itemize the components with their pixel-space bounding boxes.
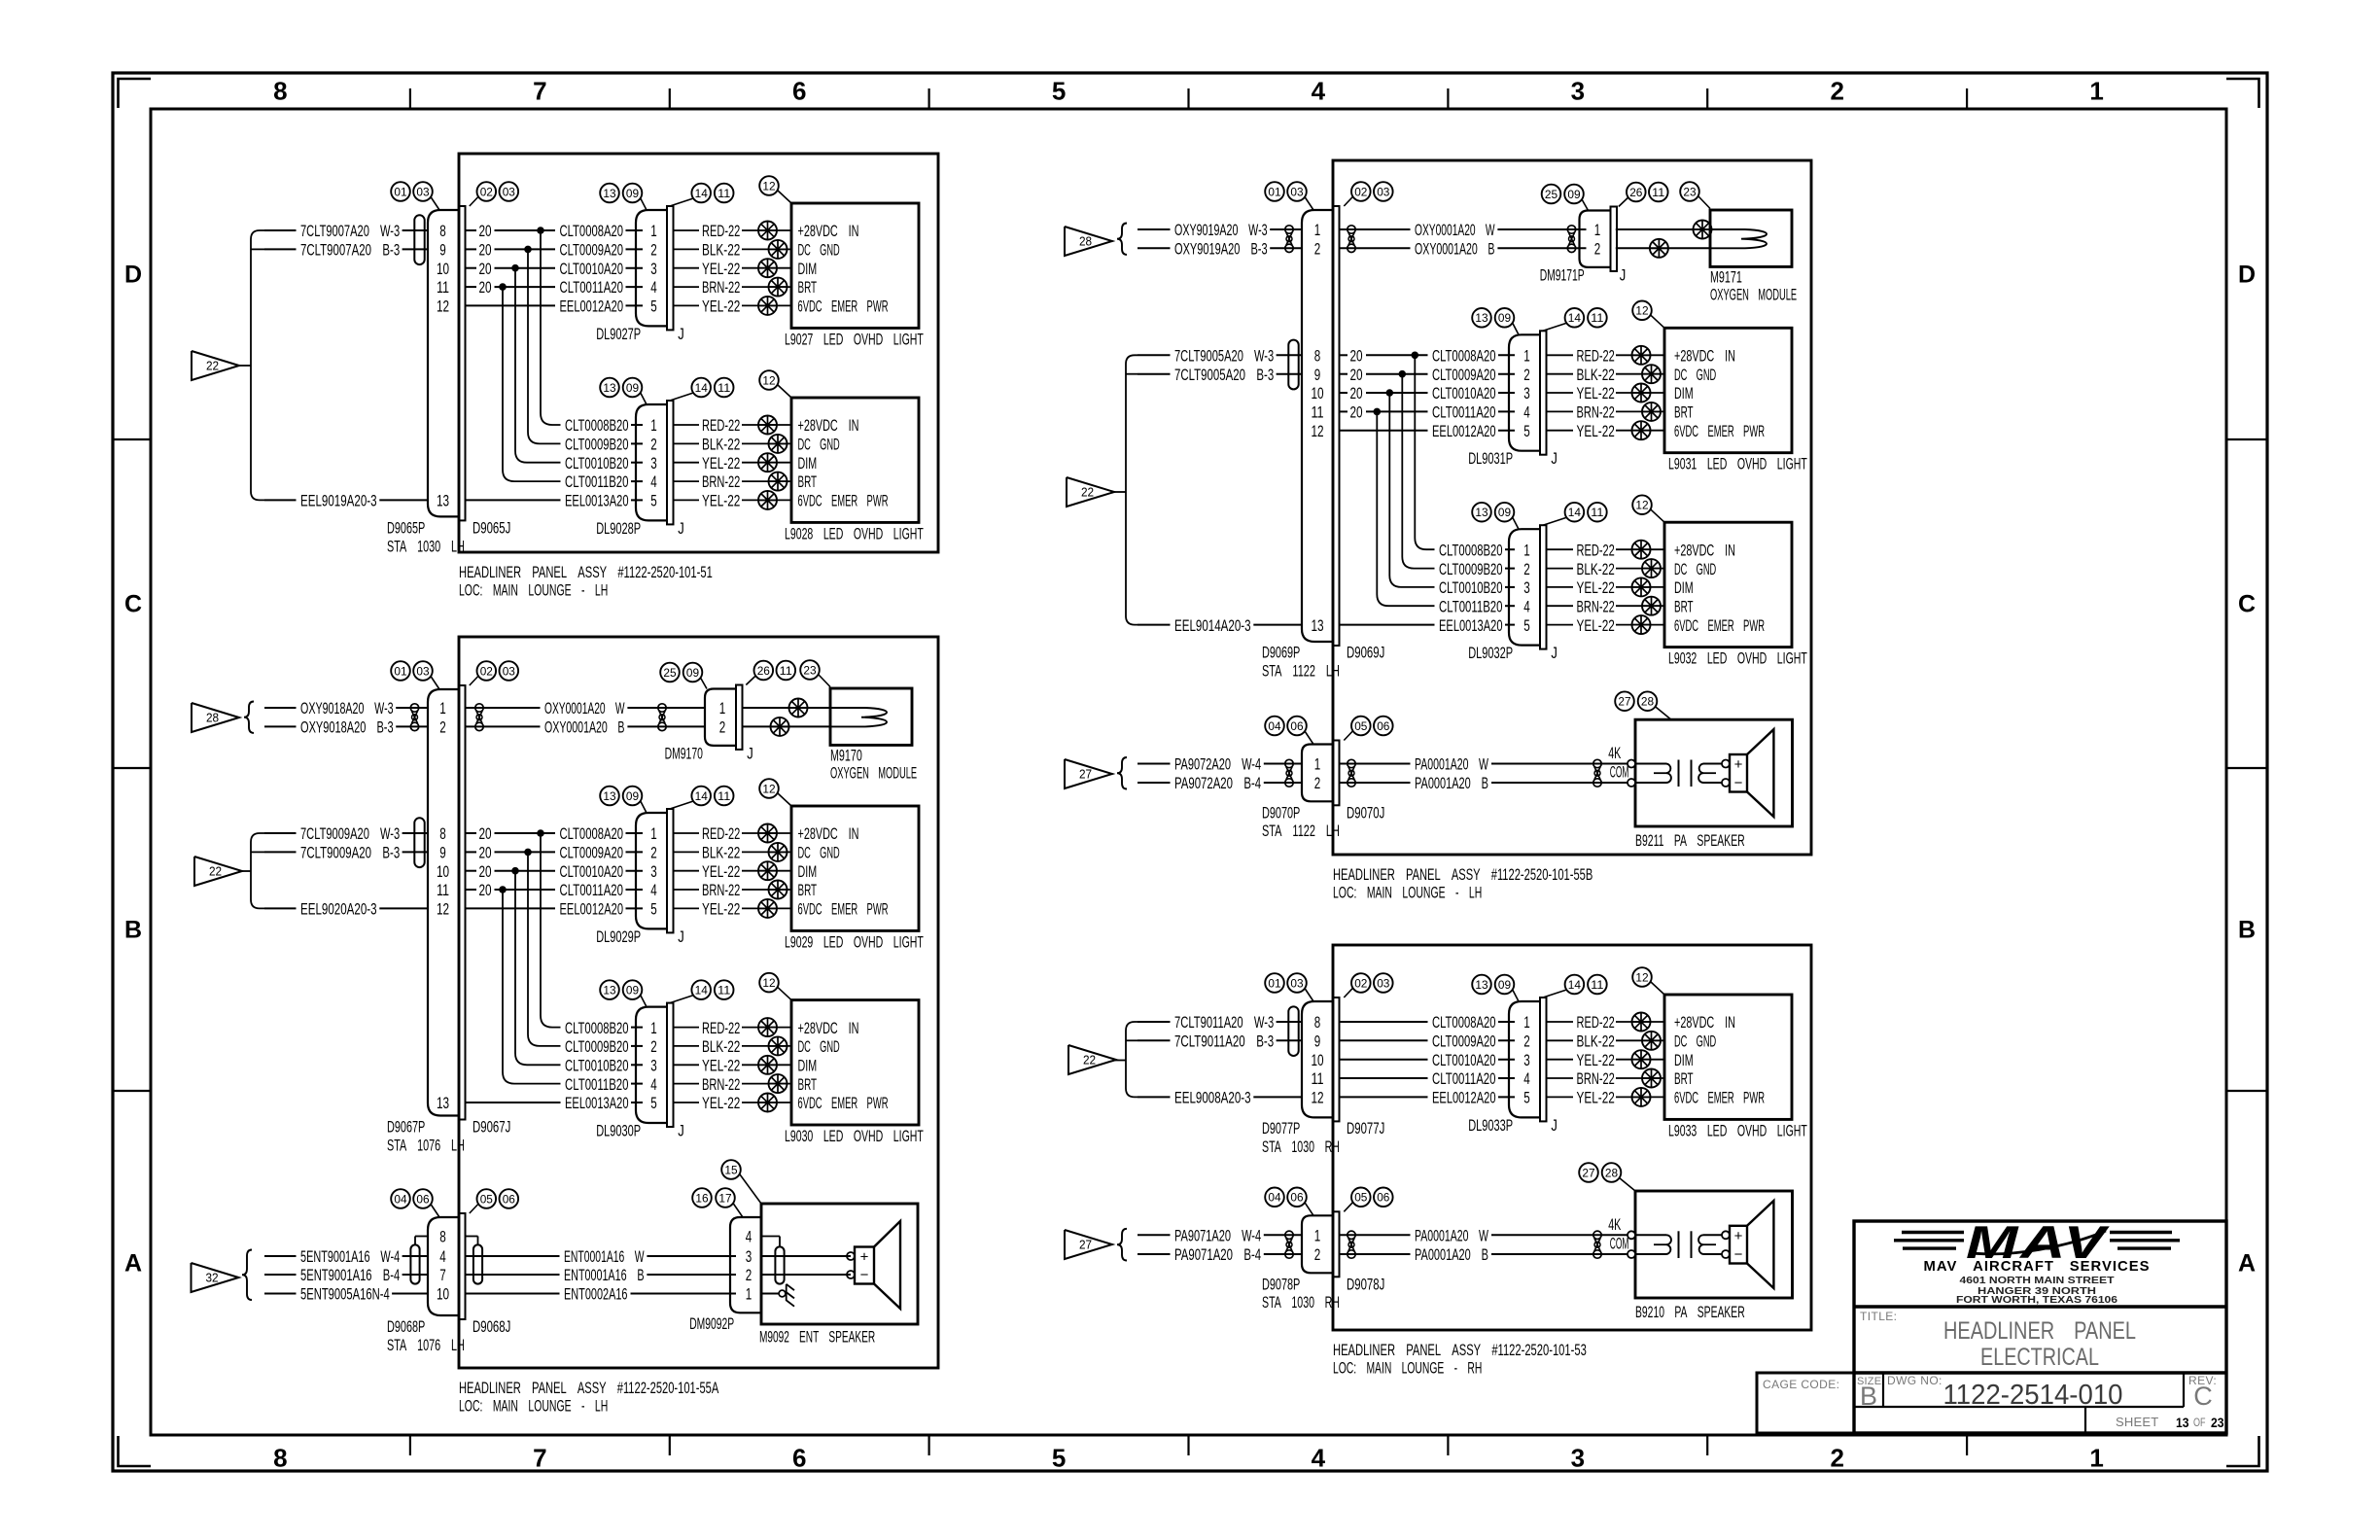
wire ENT0001A16 W <box>466 1247 736 1266</box>
svg-text:2: 2 <box>1314 1245 1321 1264</box>
svg-text:DIM: DIM <box>1674 578 1694 597</box>
svg-text:EEL0013A20: EEL0013A20 <box>1439 616 1503 635</box>
svg-text:DC GND: DC GND <box>1674 1032 1716 1051</box>
shield capsule <box>1288 340 1298 390</box>
svg-text:20: 20 <box>479 844 492 862</box>
svg-text:CLT0011B20: CLT0011B20 <box>565 1075 629 1094</box>
svg-text:CLT0009B20: CLT0009B20 <box>1439 560 1503 578</box>
title block <box>1757 1221 2226 1433</box>
wire ENT0001A16 B <box>466 1266 736 1284</box>
wire vertical drop <box>1377 411 1434 606</box>
svg-text:HEADLINER PANEL ASSY #1122-252: HEADLINER PANEL ASSY #1122-2520-101-51 <box>459 563 713 581</box>
bracket <box>251 230 264 500</box>
svg-text:2: 2 <box>650 241 657 260</box>
wire OXY0001A20 B <box>466 718 705 737</box>
wire EEL0013A20 <box>565 492 643 510</box>
svg-text:09: 09 <box>1567 188 1581 201</box>
svg-text:A: A <box>124 1250 142 1277</box>
wire segment pin1 inner <box>466 844 555 862</box>
svg-text:5ENT9001A16 B-4: 5ENT9001A16 B-4 <box>300 1266 400 1284</box>
wire CLT0010B20 <box>565 454 643 472</box>
wire segment inner <box>1340 1039 1427 1041</box>
svg-text:L9031 LED OVHD LIGHT: L9031 LED OVHD LIGHT <box>1668 455 1807 473</box>
MAV logo <box>1894 1216 2180 1268</box>
wire segment pin1 inner <box>466 241 555 260</box>
svg-text:OXY9018A20 W-3: OXY9018A20 W-3 <box>300 699 394 717</box>
connector DM9170 <box>665 685 753 763</box>
connector DM9171P <box>1540 207 1627 285</box>
svg-text:27: 27 <box>1582 1166 1595 1179</box>
svg-text:CLT0009A20: CLT0009A20 <box>560 241 624 260</box>
connector D9078P <box>1262 1211 1384 1312</box>
reference circles 25 09 26 11 23 <box>660 660 830 688</box>
svg-text:ENT0001A16 W: ENT0001A16 W <box>564 1247 645 1266</box>
svg-text:YEL-22: YEL-22 <box>702 1094 740 1112</box>
svg-text:28: 28 <box>1605 1166 1619 1179</box>
svg-text:8: 8 <box>439 1228 446 1246</box>
svg-text:20: 20 <box>479 241 492 260</box>
svg-text:CLT0009A20: CLT0009A20 <box>560 844 624 862</box>
wire EEL9019A20-3 <box>264 492 428 510</box>
svg-text:BRT: BRT <box>1674 1069 1694 1088</box>
svg-text:10: 10 <box>1311 1051 1323 1069</box>
wire segment inner <box>1340 1077 1427 1079</box>
svg-text:YEL-22: YEL-22 <box>1577 578 1615 597</box>
shield capsule <box>414 818 424 867</box>
svg-text:CLT0009A20: CLT0009A20 <box>1432 1032 1496 1051</box>
svg-text:25: 25 <box>663 666 677 680</box>
svg-text:OXY9019A20 B-3: OXY9019A20 B-3 <box>1174 240 1268 259</box>
svg-text:CAGE CODE:: CAGE CODE: <box>1763 1378 1839 1391</box>
svg-text:8: 8 <box>273 1444 287 1473</box>
svg-text:D9067J: D9067J <box>472 1118 510 1137</box>
svg-text:12: 12 <box>437 297 449 316</box>
svg-text:2: 2 <box>1830 1444 1843 1473</box>
svg-text:4: 4 <box>1523 403 1530 422</box>
svg-text:2: 2 <box>1594 240 1601 259</box>
svg-text:DM9170: DM9170 <box>665 744 703 762</box>
svg-text:4K: 4K <box>1608 1215 1622 1234</box>
PA speaker B9211 <box>1627 719 1793 850</box>
wire CLT0011A20 <box>1432 403 1515 422</box>
wire CLT0010A20 <box>560 862 644 881</box>
svg-text:14: 14 <box>695 789 709 803</box>
svg-text:YEL-22: YEL-22 <box>702 454 740 472</box>
svg-text:7CLT9005A20 B-3: 7CLT9005A20 B-3 <box>1174 366 1274 384</box>
svg-text:J: J <box>1551 644 1557 662</box>
wire segment pin0 inner <box>1340 347 1427 366</box>
svg-text:EEL9019A20-3: EEL9019A20-3 <box>300 492 377 510</box>
svg-text:LOC: MAIN LOUNGE - LH: LOC: MAIN LOUNGE - LH <box>459 581 608 600</box>
svg-text:10: 10 <box>1311 384 1323 402</box>
svg-text:CLT0009B20: CLT0009B20 <box>565 436 629 454</box>
svg-text:4: 4 <box>1523 1069 1530 1088</box>
bracket <box>1126 355 1137 624</box>
connector DL9032P <box>1468 525 1557 662</box>
svg-text:BRN-22: BRN-22 <box>702 881 740 899</box>
wire vertical drop <box>1389 393 1434 587</box>
connector D9067P <box>387 685 510 1155</box>
wire EEL0013A20 from pin 13 <box>466 499 561 501</box>
svg-text:23: 23 <box>2211 1415 2224 1430</box>
svg-text:06: 06 <box>1377 719 1390 733</box>
svg-text:09: 09 <box>626 983 640 997</box>
svg-text:HEADLINER PANEL ASSY #1122-252: HEADLINER PANEL ASSY #1122-2520-101-55B <box>1333 865 1592 884</box>
svg-text:OXY0001A20 W: OXY0001A20 W <box>544 699 625 717</box>
svg-text:M9092 ENT SPEAKER: M9092 ENT SPEAKER <box>759 1328 875 1347</box>
svg-text:DC GND: DC GND <box>1674 560 1716 578</box>
svg-text:1: 1 <box>650 1019 657 1037</box>
svg-text:4: 4 <box>650 278 657 297</box>
wire CLT0008B20 <box>565 1019 643 1037</box>
svg-text:3: 3 <box>1523 1051 1530 1069</box>
wire CLT0009A20 <box>560 241 644 260</box>
wire PA9072A20 W-4 <box>1137 755 1302 774</box>
svg-text:09: 09 <box>626 187 640 200</box>
svg-text:5: 5 <box>650 492 657 510</box>
flag 22 <box>194 857 242 886</box>
svg-text:20: 20 <box>479 222 492 240</box>
wire PA9072A20 B-4 <box>1137 774 1302 792</box>
svg-text:12: 12 <box>1311 422 1323 440</box>
svg-text:6: 6 <box>792 1444 806 1473</box>
svg-text:11: 11 <box>780 664 793 678</box>
svg-text:DL9028P: DL9028P <box>596 519 641 538</box>
svg-text:OXYGEN MODULE: OXYGEN MODULE <box>1710 285 1797 303</box>
svg-text:22: 22 <box>1083 1053 1096 1067</box>
svg-text:6VDC EMER PWR: 6VDC EMER PWR <box>798 297 889 316</box>
svg-text:BLK-22: BLK-22 <box>702 844 740 862</box>
wire segment inner <box>1340 1021 1427 1023</box>
svg-text:5: 5 <box>1052 77 1066 106</box>
svg-text:EEL0013A20: EEL0013A20 <box>565 1094 629 1112</box>
svg-text:4: 4 <box>746 1228 752 1246</box>
panel label <box>459 1379 719 1416</box>
flag 27 <box>1065 1230 1112 1259</box>
svg-text:BRN-22: BRN-22 <box>702 1075 740 1094</box>
svg-text:4: 4 <box>1312 1444 1326 1473</box>
svg-text:B: B <box>1860 1382 1877 1411</box>
svg-text:3: 3 <box>650 260 657 278</box>
svg-text:YEL-22: YEL-22 <box>702 862 740 881</box>
wire CLT0009A20 <box>1432 366 1515 384</box>
svg-text:BLK-22: BLK-22 <box>1577 1032 1615 1051</box>
svg-text:BRT: BRT <box>798 881 818 899</box>
svg-text:1: 1 <box>1314 1227 1321 1245</box>
wire segment pin2 inner <box>1340 384 1427 402</box>
svg-text:7CLT9007A20 W-3: 7CLT9007A20 W-3 <box>300 222 400 240</box>
svg-text:4: 4 <box>650 1075 657 1094</box>
LED light L9030 <box>674 1000 924 1145</box>
svg-text:2: 2 <box>746 1266 752 1284</box>
svg-text:D9068P: D9068P <box>387 1317 425 1336</box>
svg-text:CLT0011B20: CLT0011B20 <box>565 472 629 491</box>
svg-text:D: D <box>124 262 142 289</box>
svg-text:13: 13 <box>2176 1415 2189 1430</box>
svg-text:CLT0010B20: CLT0010B20 <box>1439 578 1503 597</box>
svg-text:EEL9008A20-3: EEL9008A20-3 <box>1174 1089 1251 1107</box>
wire CLT0011B20 <box>565 1075 643 1094</box>
svg-text:17: 17 <box>718 1191 732 1205</box>
svg-text:D9070J: D9070J <box>1347 803 1384 822</box>
svg-text:1: 1 <box>650 824 657 843</box>
svg-text:5ENT9005A16N-4: 5ENT9005A16N-4 <box>300 1285 390 1304</box>
reference circles dl9029 <box>600 779 791 813</box>
wire segment pin0 inner <box>466 222 555 240</box>
svg-text:13: 13 <box>1475 311 1488 325</box>
wire segment pin3 inner <box>466 881 555 899</box>
twisted pair symbols <box>1347 226 1576 253</box>
svg-text:YEL-22: YEL-22 <box>1577 616 1615 635</box>
svg-text:DL9029P: DL9029P <box>596 927 641 946</box>
svg-text:BLK-22: BLK-22 <box>1577 366 1615 384</box>
svg-text:11: 11 <box>1591 978 1604 992</box>
svg-text:20: 20 <box>1350 347 1363 366</box>
wire EEL9014A20-3 <box>1137 616 1302 635</box>
svg-text:+: + <box>860 1249 869 1266</box>
svg-text:1: 1 <box>1523 541 1530 559</box>
wire PA0001A20 W <box>1340 755 1627 774</box>
wire 7CLT9011A20 B-3 <box>1137 1032 1302 1051</box>
wire 7CLT9007A20 W-3 <box>264 222 428 240</box>
wire CLT0011A20 <box>1432 1069 1515 1088</box>
svg-text:11: 11 <box>437 881 449 899</box>
svg-text:YEL-22: YEL-22 <box>702 260 740 278</box>
svg-text:+28VDC IN: +28VDC IN <box>1674 347 1735 366</box>
flag 22 <box>192 351 239 380</box>
svg-text:D9077J: D9077J <box>1347 1119 1384 1137</box>
svg-text:03: 03 <box>1290 976 1304 990</box>
wire vertical drop <box>515 871 561 1066</box>
svg-text:05: 05 <box>480 1192 494 1206</box>
wire EEL9020A20-3 <box>264 900 428 919</box>
connector D9070P <box>1262 741 1384 840</box>
wire CLT0011B20 <box>565 472 643 491</box>
wire vertical drop <box>515 268 561 463</box>
svg-text:5: 5 <box>1523 422 1530 440</box>
svg-text:YEL-22: YEL-22 <box>1577 422 1615 440</box>
wire segment pin2 inner <box>466 260 555 278</box>
svg-text:12: 12 <box>1635 970 1649 984</box>
svg-text:L9029 LED OVHD LIGHT: L9029 LED OVHD LIGHT <box>785 932 924 951</box>
svg-text:6VDC EMER PWR: 6VDC EMER PWR <box>1674 616 1765 635</box>
panel box HEADLINER PANEL ASSY -55B <box>1333 160 1811 855</box>
wire segment pin0 inner <box>466 824 555 843</box>
svg-text:PA0001A20 B: PA0001A20 B <box>1415 1245 1488 1264</box>
svg-text:DWG NO:: DWG NO: <box>1887 1374 1942 1387</box>
svg-text:6: 6 <box>792 77 806 106</box>
svg-text:BRN-22: BRN-22 <box>1577 598 1615 616</box>
connector DL9033P <box>1468 997 1557 1135</box>
svg-text:CLT0011B20: CLT0011B20 <box>1439 598 1503 616</box>
svg-text:RED-22: RED-22 <box>1577 541 1615 559</box>
wire 5ENT9001A16 B-4 <box>264 1266 428 1284</box>
svg-text:3: 3 <box>1571 77 1585 106</box>
svg-text:BRN-22: BRN-22 <box>1577 1069 1615 1088</box>
svg-text:COM: COM <box>1610 1235 1629 1253</box>
svg-text:+28VDC IN: +28VDC IN <box>798 1019 859 1037</box>
reference circles 0103 <box>391 182 518 210</box>
svg-text:CLT0011A20: CLT0011A20 <box>1432 1069 1496 1088</box>
svg-text:+28VDC IN: +28VDC IN <box>1674 541 1735 559</box>
svg-text:27: 27 <box>1079 767 1092 782</box>
svg-text:02: 02 <box>1354 976 1368 990</box>
svg-text:DM9092P: DM9092P <box>689 1314 734 1333</box>
svg-text:1: 1 <box>439 699 446 717</box>
wire CLT0008B20 <box>1439 541 1515 559</box>
svg-text:20: 20 <box>1350 403 1363 422</box>
wire vertical drop <box>1402 374 1434 569</box>
panel box HEADLINER PANEL ASSY -55A <box>459 637 938 1368</box>
panel label <box>1333 865 1592 902</box>
panel box HEADLINER PANEL ASSY -53 <box>1333 945 1811 1330</box>
svg-text:3: 3 <box>1571 1444 1585 1473</box>
svg-text:6VDC EMER PWR: 6VDC EMER PWR <box>1674 1089 1765 1107</box>
company name and address <box>1924 1258 2151 1306</box>
svg-text:PA9072A20 W-4: PA9072A20 W-4 <box>1174 755 1261 774</box>
twisted pair symbols <box>475 704 666 731</box>
svg-text:HEADLINER PANEL ASSY #1122-252: HEADLINER PANEL ASSY #1122-2520-101-55A <box>459 1379 719 1397</box>
svg-text:7CLT9011A20 W-3: 7CLT9011A20 W-3 <box>1174 1013 1274 1032</box>
svg-text:13: 13 <box>603 983 616 997</box>
wire PA0001A20 W <box>1340 1227 1627 1245</box>
svg-text:C: C <box>2193 1382 2213 1411</box>
svg-text:09: 09 <box>686 666 700 680</box>
svg-text:J: J <box>1620 265 1627 284</box>
wire ENT0002A16 <box>466 1285 736 1304</box>
svg-text:7CLT9005A20 W-3: 7CLT9005A20 W-3 <box>1174 347 1274 366</box>
wire segment pin3 inner <box>1340 403 1427 422</box>
wire 5ENT9005A16N-4 <box>264 1285 428 1304</box>
svg-text:7: 7 <box>533 1444 546 1473</box>
svg-text:7CLT9011A20 B-3: 7CLT9011A20 B-3 <box>1174 1032 1274 1051</box>
svg-text:CLT0011A20: CLT0011A20 <box>560 278 624 297</box>
wire CLT0010A20 <box>1432 1051 1515 1069</box>
flag 22 <box>1068 1045 1116 1074</box>
svg-text:2: 2 <box>439 718 446 737</box>
svg-text:2: 2 <box>650 1037 657 1056</box>
reference circles 0406 <box>1265 1188 1392 1216</box>
connector DL9028P <box>596 401 684 538</box>
svg-text:ENT0002A16: ENT0002A16 <box>564 1285 628 1304</box>
shield capsule <box>1288 1006 1298 1056</box>
svg-text:BRT: BRT <box>798 472 818 491</box>
twisted pair symbols <box>1347 759 1601 787</box>
reference circles dl9028 <box>600 370 791 404</box>
svg-text:DL9031P: DL9031P <box>1468 449 1513 468</box>
panel label <box>459 563 713 600</box>
svg-text:12: 12 <box>1635 499 1649 512</box>
wire EEL0012A20 <box>1432 1089 1515 1107</box>
svg-text:20: 20 <box>479 881 492 899</box>
flag 27 <box>1065 759 1112 788</box>
svg-text:05: 05 <box>1354 719 1368 733</box>
svg-text:13: 13 <box>437 492 449 510</box>
wire segment pin3 inner <box>466 278 555 297</box>
svg-text:4: 4 <box>1523 598 1530 616</box>
wire EEL0013A20 from pin 13 <box>1340 624 1434 626</box>
svg-text:CLT0010A20: CLT0010A20 <box>560 862 624 881</box>
twisted pair symbol <box>410 704 418 712</box>
wire segment inner <box>1340 1059 1427 1061</box>
svg-text:06: 06 <box>1290 719 1304 733</box>
svg-text:J: J <box>678 519 684 538</box>
wire OXY9019A20 W-3 <box>1137 221 1302 239</box>
wire CLT0010B20 <box>1439 578 1515 597</box>
svg-text:BRN-22: BRN-22 <box>1577 403 1615 422</box>
svg-text:8: 8 <box>273 77 287 106</box>
reference circles 0103 <box>391 661 518 689</box>
svg-text:9: 9 <box>439 241 446 260</box>
wire OXY0001A20 W <box>1340 221 1586 239</box>
wire 7CLT9007A20 B-3 <box>264 241 428 260</box>
svg-text:6VDC EMER PWR: 6VDC EMER PWR <box>798 900 889 919</box>
svg-text:STA 1030 RH: STA 1030 RH <box>1262 1137 1340 1156</box>
svg-text:04: 04 <box>1268 719 1281 733</box>
svg-text:8: 8 <box>439 824 446 843</box>
svg-text:1: 1 <box>1314 221 1321 239</box>
svg-text:06: 06 <box>1290 1191 1304 1205</box>
shield capsule and jumper inner <box>466 1237 482 1284</box>
svg-text:02: 02 <box>480 185 494 198</box>
svg-text:28: 28 <box>1641 695 1655 709</box>
svg-text:BLK-22: BLK-22 <box>1577 560 1615 578</box>
svg-text:+28VDC IN: +28VDC IN <box>798 416 859 435</box>
panel box HEADLINER PANEL ASSY -51 <box>459 154 938 552</box>
svg-text:20: 20 <box>479 260 492 278</box>
svg-text:D: D <box>2238 262 2256 289</box>
reference circles dl9032 <box>1472 495 1664 529</box>
svg-text:D9065P: D9065P <box>387 519 425 538</box>
connector D9077P <box>1262 997 1384 1156</box>
reference circles 27 28 <box>1579 1163 1635 1191</box>
svg-text:22: 22 <box>1081 485 1094 500</box>
svg-text:14: 14 <box>1568 506 1582 519</box>
svg-text:28: 28 <box>206 711 219 725</box>
svg-text:OF: OF <box>2193 1416 2206 1429</box>
bracket <box>251 833 264 908</box>
shield capsule <box>414 215 424 264</box>
svg-text:B9211 PA SPEAKER: B9211 PA SPEAKER <box>1635 831 1745 850</box>
svg-text:03: 03 <box>1377 185 1390 198</box>
title text <box>1860 1310 2136 1371</box>
labels 4K COM <box>1608 1215 1628 1253</box>
svg-text:D9078P: D9078P <box>1262 1275 1300 1293</box>
wire CLT0009B20 <box>565 436 643 454</box>
twisted pair symbol <box>1285 759 1293 767</box>
flag 22 <box>1067 477 1114 507</box>
wire CLT0011A20 <box>560 278 644 297</box>
svg-text:03: 03 <box>416 664 430 678</box>
svg-text:DC GND: DC GND <box>798 436 840 454</box>
svg-text:YEL-22: YEL-22 <box>702 492 740 510</box>
svg-text:22: 22 <box>209 864 222 879</box>
svg-text:OXY0001A20 B: OXY0001A20 B <box>544 718 625 737</box>
svg-text:DL9032P: DL9032P <box>1468 644 1513 662</box>
svg-text:DL9027P: DL9027P <box>596 325 641 343</box>
svg-text:CLT0011A20: CLT0011A20 <box>560 881 624 899</box>
svg-text:6VDC EMER PWR: 6VDC EMER PWR <box>798 492 889 510</box>
svg-text:L9033 LED OVHD LIGHT: L9033 LED OVHD LIGHT <box>1668 1121 1807 1139</box>
svg-text:4: 4 <box>1312 77 1326 106</box>
svg-text:8: 8 <box>1314 1013 1321 1032</box>
svg-text:COM: COM <box>1610 763 1629 782</box>
labels 4K COM <box>1608 744 1628 782</box>
svg-text:BLK-22: BLK-22 <box>702 241 740 260</box>
svg-text:5: 5 <box>1523 1089 1530 1107</box>
svg-text:13: 13 <box>1311 616 1323 635</box>
svg-text:13: 13 <box>603 381 616 395</box>
